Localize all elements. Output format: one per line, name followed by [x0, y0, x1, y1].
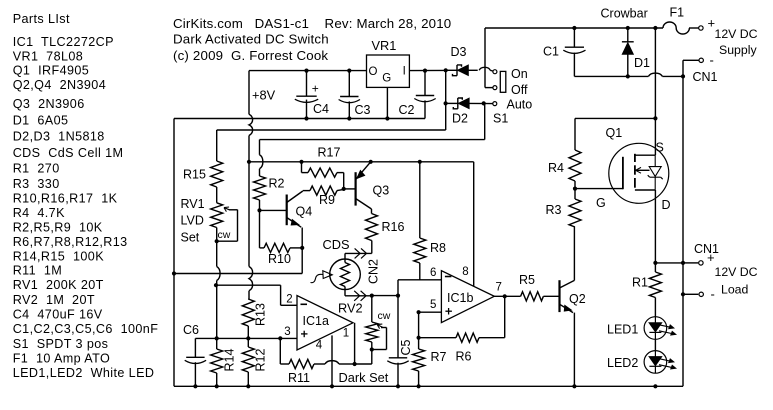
svg-text:R16: R16: [382, 220, 405, 234]
svg-text:6: 6: [430, 267, 436, 279]
svg-text:Parts LIst: Parts LIst: [13, 12, 70, 26]
svg-text:4: 4: [316, 340, 323, 352]
Q1 body diode: [649, 167, 661, 177]
potentiometer RV1: [211, 203, 223, 228]
CDS light arrow: [323, 271, 332, 279]
wire D2 bus to R15: [217, 129, 446, 131]
resistor R9: [310, 186, 337, 195]
wire top of R4 to Q1 source node: [575, 117, 655, 119]
wire +8V down to IC1b pin 8: [473, 162, 475, 286]
svg-text:G: G: [382, 73, 391, 85]
wire bottom ground rail: [174, 385, 683, 387]
svg-text:C1: C1: [543, 45, 559, 59]
svg-text:12V DC: 12V DC: [715, 265, 758, 279]
svg-text:R11: R11: [288, 371, 310, 385]
photocell CDS circle: [330, 259, 361, 290]
wire R2 down to R10: [259, 210, 261, 248]
svg-text:5: 5: [430, 299, 436, 311]
svg-text:RV1: RV1: [181, 197, 205, 211]
svg-text:12V DC: 12V DC: [715, 27, 758, 41]
switch S1 On contact: [493, 70, 497, 74]
svg-text:R12: R12: [253, 349, 267, 372]
svg-text:cw: cw: [218, 229, 231, 241]
mosfet Q1 circle: [609, 143, 669, 203]
wire load minus: [681, 292, 685, 296]
wire R2 top from Auto line: [259, 140, 261, 155]
svg-text:3: 3: [284, 326, 290, 338]
svg-text:R2: R2: [269, 177, 285, 191]
svg-text:G: G: [596, 196, 606, 210]
wire RV1 bus down to pin3 line: [216, 241, 218, 266]
svg-text:CN1: CN1: [694, 242, 719, 256]
svg-text:R10: R10: [268, 252, 291, 266]
wire Q2 emitter down to rail: [573, 313, 575, 387]
node dot +8V distribution: [247, 160, 251, 164]
resistor R13: [247, 298, 250, 300]
svg-text:LED1,LED2 White LED: LED1,LED2 White LED: [13, 366, 155, 380]
svg-text:LED2: LED2: [607, 356, 638, 370]
svg-text:C2: C2: [399, 103, 415, 117]
svg-text:R4: R4: [548, 161, 564, 175]
svg-text:7: 7: [496, 282, 502, 294]
resistor R8: [418, 160, 422, 164]
svg-text:Q2: Q2: [569, 292, 586, 306]
diode D2: [446, 102, 458, 104]
capacitor C2: [424, 71, 426, 96]
resistor R11 feedback: [279, 338, 281, 364]
wire Q4 base: [260, 209, 287, 211]
svg-text:C6: C6: [183, 323, 199, 337]
resistor R3: [569, 199, 581, 227]
capacitor C6: [194, 338, 196, 357]
connector CN2 upper pin: [371, 241, 373, 254]
resistor R7: [418, 338, 420, 349]
node dot CDS bottom: [370, 294, 374, 298]
svg-text:cw: cw: [378, 310, 391, 322]
svg-text:+: +: [312, 81, 319, 95]
svg-text:VR1 78L08: VR1 78L08: [13, 50, 84, 64]
svg-text:R14,R15 100K: R14,R15 100K: [13, 250, 105, 264]
node dot R14 top: [215, 336, 219, 340]
svg-text:CDS: CDS: [323, 237, 350, 252]
svg-text:Q4: Q4: [296, 205, 313, 219]
svg-text:R15: R15: [183, 168, 206, 182]
svg-text:8: 8: [462, 266, 468, 278]
wire RV2 bottom to IC1a output: [371, 350, 373, 365]
svg-text:S: S: [656, 141, 664, 155]
wire Q1 drain down: [654, 190, 656, 263]
svg-text:C5: C5: [399, 339, 413, 355]
resistor R5: [521, 292, 544, 301]
svg-text:C4 470uF 16V: C4 470uF 16V: [13, 307, 103, 321]
wire CDS node right: [372, 295, 398, 297]
svg-text:1: 1: [343, 328, 349, 340]
wire pin3 line: [195, 337, 296, 339]
Q1 body arrow: [635, 169, 650, 171]
svg-text:Q3: Q3: [373, 184, 390, 198]
svg-text:IC1a: IC1a: [303, 314, 329, 328]
capacitor C5: [397, 296, 399, 358]
svg-text:Set: Set: [181, 231, 200, 245]
svg-text:2: 2: [286, 294, 292, 306]
svg-text:CN2: CN2: [366, 259, 380, 284]
RV1 wiper arrow: [229, 209, 238, 211]
left ground bus: [173, 119, 175, 387]
wire load plus: [655, 262, 683, 264]
node dot RV1 bus to pin2 line: [214, 283, 218, 287]
svg-text:R7: R7: [431, 350, 447, 364]
wire C1 bottom to minus bus: [574, 75, 648, 77]
supply + terminal: [699, 26, 703, 30]
potentiometer RV2: [371, 296, 373, 322]
svg-text:R14: R14: [223, 349, 237, 372]
svg-text:R2,R5,R9 10K: R2,R5,R9 10K: [13, 221, 103, 235]
wire LED2 to ground rail: [653, 384, 657, 388]
wire +8V rail to VR1 O pin: [249, 70, 367, 72]
svg-text:RV2: RV2: [338, 301, 363, 316]
svg-text:C1,C2,C3,C5,C6 100nF: C1,C2,C3,C5,C6 100nF: [13, 322, 159, 336]
resistor R14: [216, 338, 218, 349]
svg-text:R4 4.7K: R4 4.7K: [13, 206, 65, 220]
resistor R16: [366, 214, 378, 241]
svg-text:-: -: [710, 53, 714, 68]
svg-text:D2: D2: [452, 112, 468, 126]
led LED2: [644, 351, 667, 374]
Q1 source stub: [635, 154, 656, 156]
resistor R10: [260, 247, 265, 249]
svg-text:D1 6A05: D1 6A05: [13, 114, 69, 128]
wire IC1b output: [494, 295, 520, 297]
led LED1: [644, 317, 667, 340]
switch S1 actuator: [500, 71, 506, 92]
switch S1 Auto contact: [493, 102, 497, 106]
transistor Q2: [558, 280, 560, 312]
node dot C1 top: [572, 26, 576, 30]
svg-text:LED1: LED1: [607, 323, 638, 337]
svg-text:F1 10 Amp ATO: F1 10 Amp ATO: [13, 352, 111, 366]
wire Q2 collector up to R3: [573, 227, 575, 280]
svg-text:On: On: [511, 67, 528, 81]
svg-text:IC1 TLC2272CP: IC1 TLC2272CP: [13, 35, 114, 49]
svg-text:CirKits.com DAS1-c1 Rev:: CirKits.com DAS1-c1 Rev: March 28, 2010: [173, 16, 451, 31]
svg-text:R5: R5: [519, 273, 535, 287]
svg-text:C3: C3: [355, 103, 371, 117]
svg-text:CN1: CN1: [693, 70, 718, 84]
wire Auto contact down to R2 line: [484, 103, 486, 139]
svg-text:R3 330: R3 330: [13, 177, 60, 191]
capacitor C4 electrolytic: [306, 71, 308, 97]
wire up to IC1b pin6: [397, 280, 399, 296]
wire IC1a pin4 to ground rail: [331, 335, 333, 357]
fuse F1 symbol: [663, 22, 689, 34]
svg-text:D1: D1: [634, 56, 650, 70]
svg-text:S1 SPDT 3 pos: S1 SPDT 3 pos: [13, 337, 109, 351]
wire S vertical from rail to Q1 source: [654, 28, 656, 155]
wire rail corner down to Off: [484, 28, 486, 88]
resistor R2: [254, 176, 266, 200]
wire top +12V rail: [485, 27, 663, 29]
Q1 channel bar dashed: [634, 154, 636, 162]
svg-text:RV1 200K 20T: RV1 200K 20T: [13, 278, 104, 292]
svg-text:Dark Activated DC Switch: Dark Activated DC Switch: [173, 32, 329, 47]
switch S1 Off contact: [493, 86, 497, 90]
svg-text:C4: C4: [313, 102, 329, 116]
svg-text:CDS CdS Cell 1M: CDS CdS Cell 1M: [13, 146, 124, 160]
wire ground line under caps: [174, 118, 425, 120]
svg-text:Load: Load: [721, 283, 749, 297]
diode D3: [446, 69, 457, 71]
svg-text:LVD: LVD: [181, 214, 204, 228]
svg-text:D3: D3: [451, 45, 467, 59]
op-amp IC1a: [297, 296, 353, 350]
svg-text:O: O: [369, 66, 378, 78]
svg-text:RV2 1M 20T: RV2 1M 20T: [13, 293, 95, 307]
svg-text:R6,R7,R8,R12,R13: R6,R7,R8,R12,R13: [13, 235, 128, 249]
svg-text:R8: R8: [430, 241, 446, 255]
svg-text:Q3 2N3906: Q3 2N3906: [13, 97, 85, 111]
svg-text:Crowbar: Crowbar: [601, 7, 648, 21]
svg-text:R6: R6: [456, 350, 472, 364]
supply - terminal: [699, 58, 703, 62]
svg-text:F1: F1: [670, 6, 685, 20]
wire IC1b pin5: [419, 311, 442, 313]
svg-text:VR1: VR1: [372, 38, 397, 53]
svg-text:R1: R1: [632, 276, 648, 290]
wire minus bus vertical: [682, 60, 684, 386]
svg-text:I: I: [403, 66, 406, 78]
svg-text:Q1 IRF4905: Q1 IRF4905: [13, 64, 90, 78]
svg-text:Auto: Auto: [507, 98, 533, 112]
transistor Q4: [286, 195, 288, 226]
wire pin2 line: [216, 284, 281, 286]
wire D3 to On contact with hop: [479, 67, 490, 70]
svg-text:R17: R17: [318, 146, 341, 160]
resistor R4: [574, 118, 576, 150]
svg-text:R3: R3: [546, 203, 562, 217]
capacitor C1: [573, 28, 575, 47]
svg-text:S1: S1: [493, 112, 508, 126]
svg-text:Supply: Supply: [719, 43, 757, 57]
resistor R17: [301, 162, 303, 173]
Q1 drain stub: [635, 189, 656, 191]
svg-text:Q2,Q4 2N3904: Q2,Q4 2N3904: [13, 78, 106, 92]
wire VR1 G pin to ground line: [386, 87, 388, 118]
svg-text:Off: Off: [511, 83, 528, 97]
svg-text:R10,R16,R17 1K: R10,R16,R17 1K: [13, 192, 118, 206]
svg-text:R9: R9: [319, 193, 335, 207]
transistor Q3: [344, 188, 356, 190]
resistor R1: [654, 263, 656, 272]
RV2 wiper arrow: [381, 327, 387, 329]
voltage regulator VR1 box: [367, 55, 410, 87]
op-amp IC1b: [441, 271, 494, 323]
svg-text:R1 270: R1 270: [13, 162, 60, 176]
wire ground spur to Q4 emitter: [172, 271, 176, 275]
resistor R12: [242, 347, 254, 372]
wire Q1 gate: [575, 188, 623, 190]
svg-text:D2,D3 1N5818: D2,D3 1N5818: [13, 130, 105, 144]
wire LED1 to LED2: [654, 339, 656, 350]
svg-text:(c) 2009 G. Forrest Cook: (c) 2009 G. Forrest Cook: [173, 48, 328, 63]
Q1 gate bar: [622, 157, 624, 189]
wire pin4 crossing: [331, 357, 333, 371]
svg-text:Dark Set: Dark Set: [339, 370, 389, 385]
svg-text:Q1: Q1: [606, 126, 623, 140]
svg-text:IC1b: IC1b: [447, 291, 473, 305]
wire D2 D3 cathode bus: [445, 70, 447, 130]
resistor R6 feedback: [419, 337, 456, 339]
svg-text:+8V: +8V: [252, 88, 276, 103]
capacitor C3: [348, 71, 350, 97]
node dot R17 left: [299, 160, 303, 164]
svg-text:-: -: [711, 287, 715, 302]
connector CN2 lower pin: [344, 287, 346, 296]
svg-text:D: D: [662, 198, 671, 212]
svg-text:R11 1M: R11 1M: [13, 264, 62, 278]
wire +8V bus vertical: [248, 71, 250, 115]
diode D1 crowbar: [627, 28, 629, 43]
svg-text:R13: R13: [253, 303, 267, 326]
wire VR1 I pin to D3 bus: [409, 69, 445, 71]
resistor R15: [216, 130, 218, 161]
